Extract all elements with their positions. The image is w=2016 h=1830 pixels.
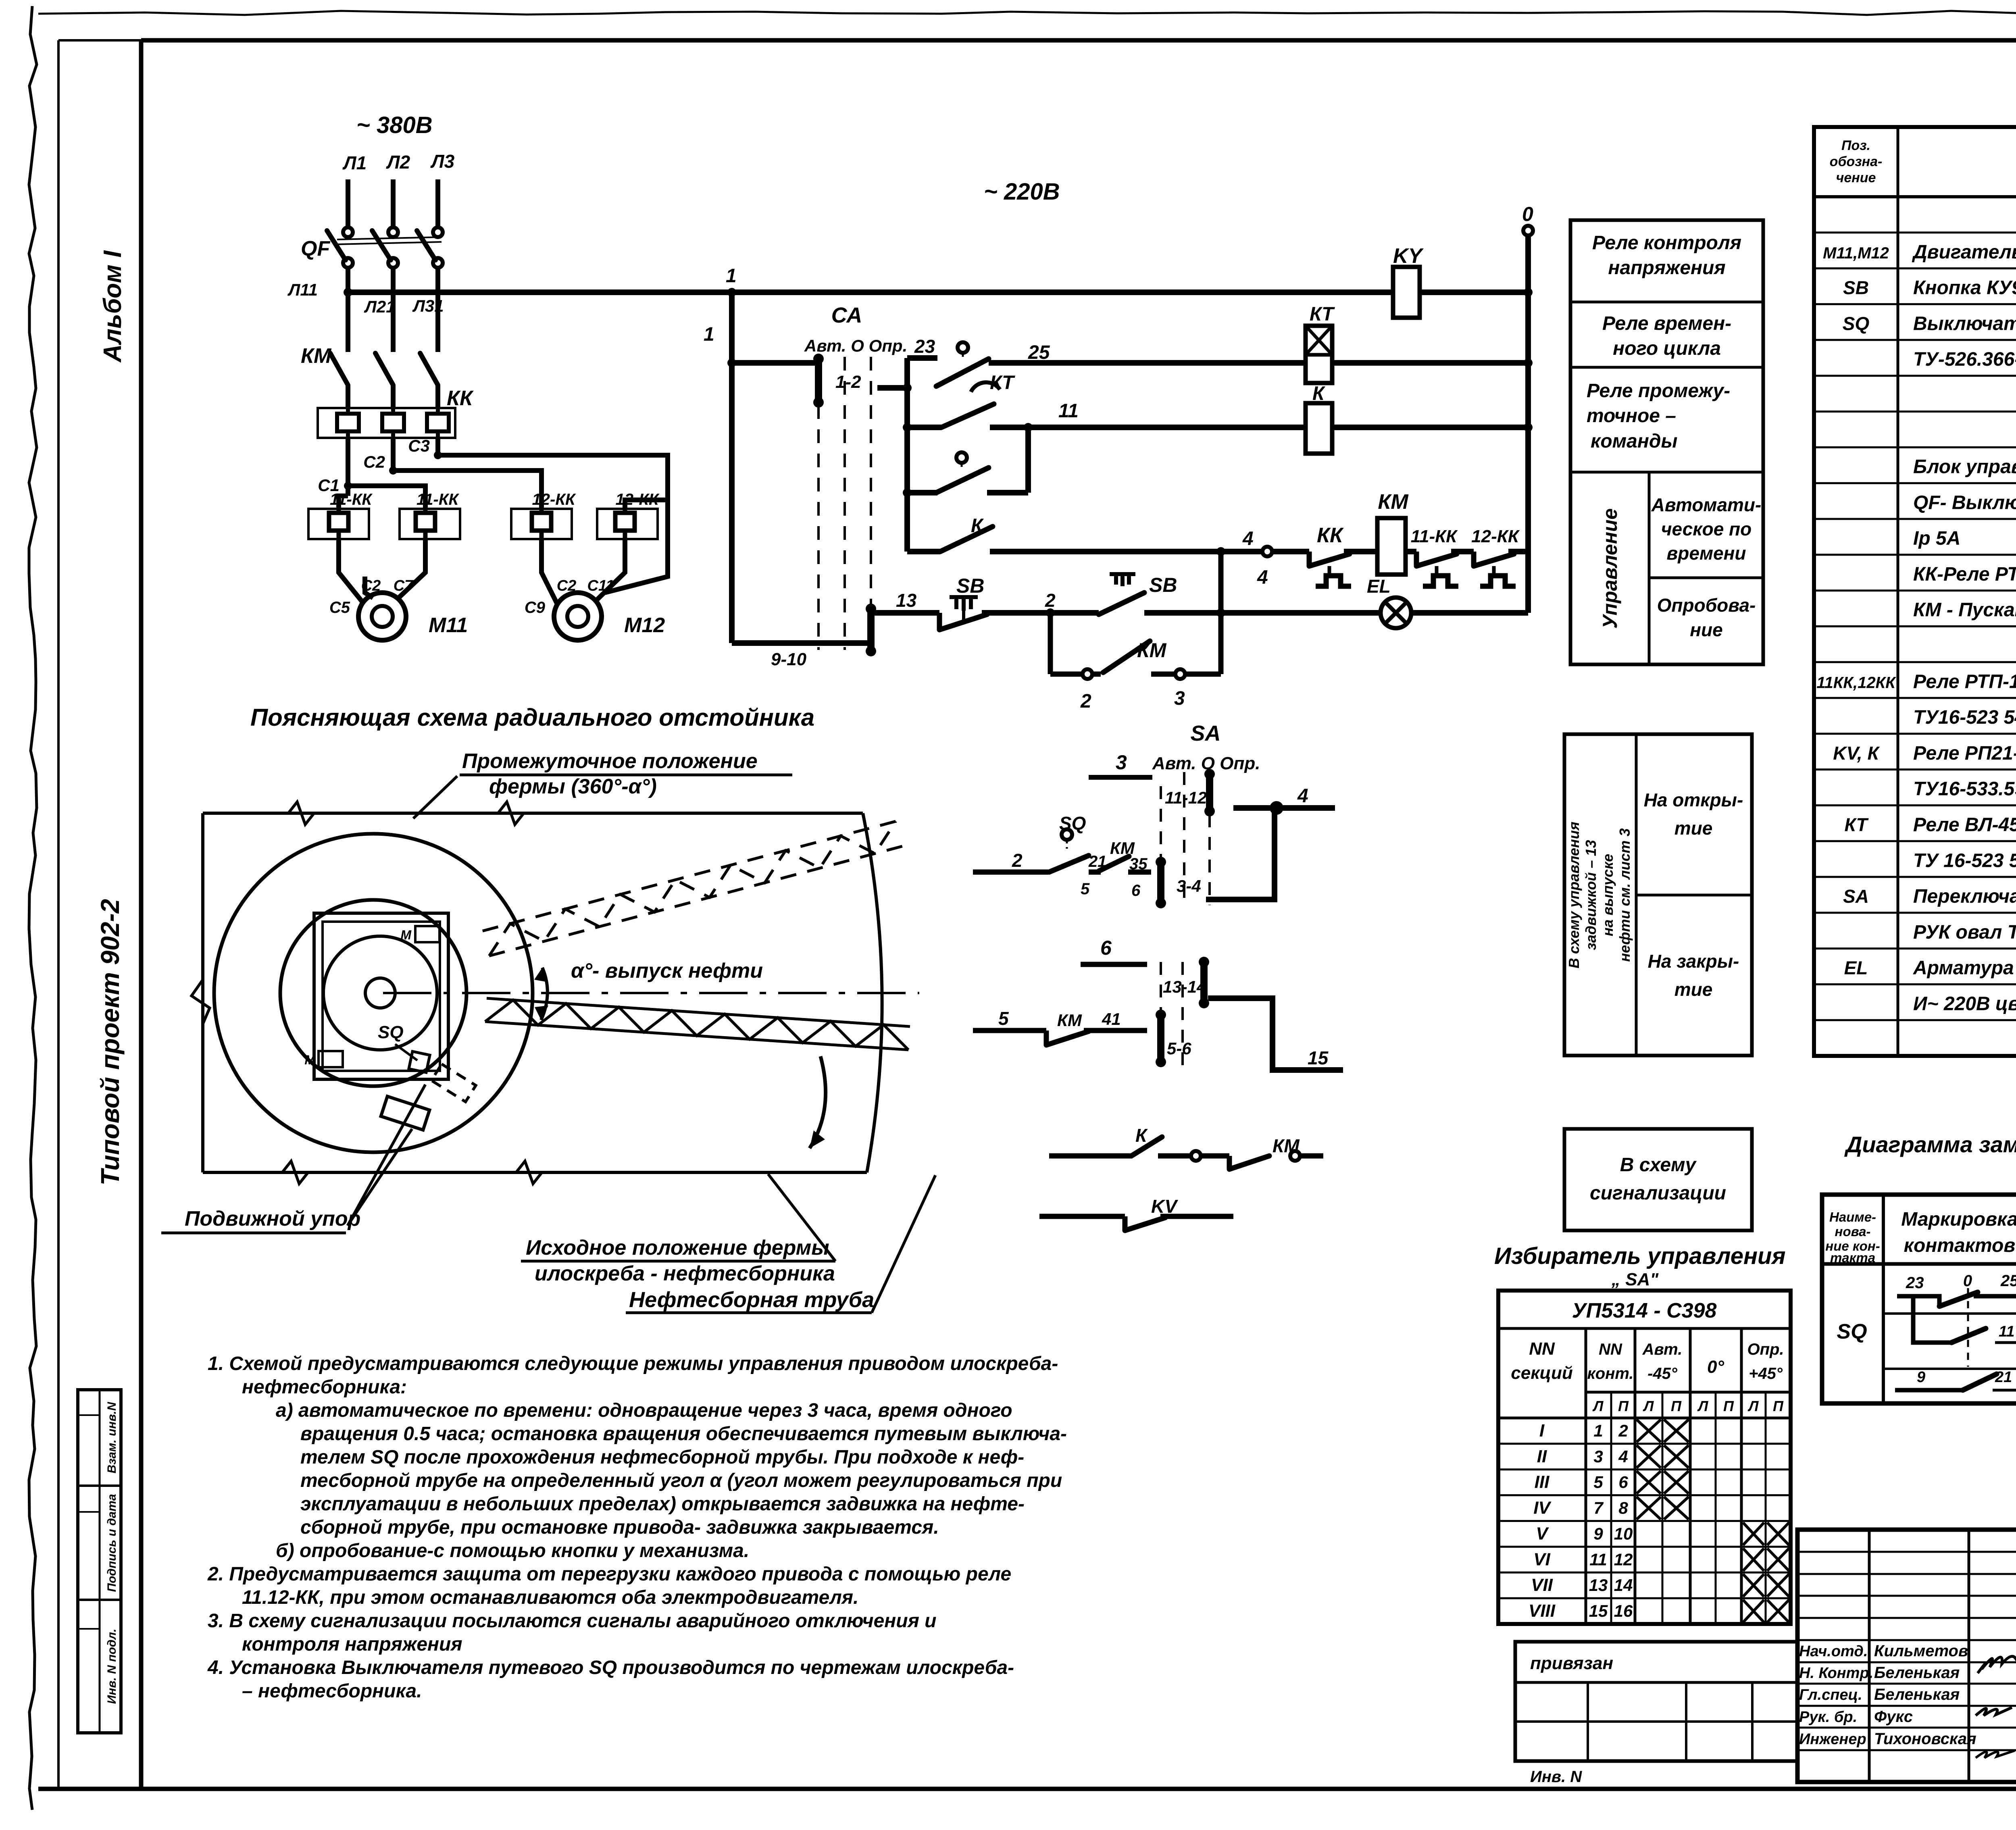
- svg-text:VI: VI: [1533, 1549, 1550, 1569]
- svg-text:23: 23: [914, 336, 935, 357]
- svg-text:б) опробование-с помощью: б) опробование-с помощью кнопки у механи…: [276, 1540, 749, 1561]
- svg-text:обозна-: обозна-: [1830, 154, 1883, 169]
- svg-text:М: М: [400, 928, 412, 942]
- svg-text:Авт. О Опр.: Авт. О Опр.: [804, 336, 907, 355]
- svg-text:Блок управления Б 5130-26: Блок управления Б 5130-26746: [1913, 456, 2016, 478]
- svg-text:вращения 0.5 часа; останов: вращения 0.5 часа; остановка вращения об…: [300, 1423, 1067, 1445]
- svg-text:6: 6: [1618, 1473, 1628, 1492]
- svg-text:К: К: [971, 515, 984, 537]
- svg-text:Беленькая: Беленькая: [1874, 1664, 1960, 1682]
- svg-text:М: М: [304, 1053, 316, 1067]
- svg-text:Наиме-: Наиме-: [1829, 1210, 1876, 1224]
- svg-text:К: К: [1312, 383, 1326, 404]
- svg-text:10: 10: [1614, 1524, 1633, 1543]
- svg-text:SQ: SQ: [1837, 1320, 1867, 1343]
- svg-text:Л: Л: [1643, 1398, 1654, 1414]
- svg-text:телем SQ после прохожде: телем SQ после прохождения нефтесборной …: [300, 1447, 1024, 1468]
- svg-text:11: 11: [1058, 400, 1079, 422]
- svg-text:2: 2: [1080, 691, 1091, 712]
- svg-text:0°: 0°: [1707, 1357, 1724, 1377]
- svg-text:12-КК: 12-КК: [532, 491, 576, 508]
- svg-text:Реле РТП-100504 Iнэ 1А: Реле РТП-100504 Iнэ 1А: [1913, 671, 2016, 692]
- svg-text:„ SА": „ SА": [1611, 1270, 1659, 1289]
- svg-text:NN: NN: [1529, 1339, 1555, 1359]
- svg-text:21: 21: [1995, 1369, 2012, 1386]
- svg-text:13-14: 13-14: [1163, 977, 1206, 996]
- svg-text:Гл.спец.: Гл.спец.: [1799, 1686, 1862, 1703]
- svg-text:Кильметов: Кильметов: [1874, 1642, 1968, 1660]
- svg-text:Типовой проект 902-2: Типовой проект 902-2: [96, 899, 125, 1186]
- svg-text:VIII: VIII: [1529, 1601, 1556, 1621]
- svg-text:Тихоновская: Тихоновская: [1874, 1730, 1976, 1748]
- svg-text:КК-Реле РТЛ 100804 Iнэ: КК-Реле РТЛ 100804 Iнэ 4А: [1913, 564, 2016, 585]
- svg-text:Л: Л: [1697, 1398, 1709, 1414]
- svg-text:SQ: SQ: [378, 1022, 404, 1042]
- svg-text:С9: С9: [525, 599, 546, 616]
- svg-text:Iр 5А: Iр 5А: [1913, 528, 1960, 549]
- svg-text:SА: SА: [1843, 886, 1869, 907]
- svg-text:Двигатель ВАО-22-6 Р 1.1 кВ: Двигатель ВАО-22-6 Р 1.1 кВт. I з.2А: [1912, 242, 2016, 263]
- svg-text:Реле РП21-002 И~220В: Реле РП21-002 И~220В: [1913, 743, 2016, 764]
- svg-text:9-10: 9-10: [771, 650, 807, 669]
- svg-text:Альбом I: Альбом I: [99, 250, 127, 363]
- svg-text:Л2: Л2: [386, 152, 410, 173]
- svg-text:1-2: 1-2: [835, 372, 861, 392]
- svg-text:II: II: [1537, 1447, 1547, 1466]
- svg-text:КК: КК: [447, 387, 474, 410]
- svg-text:Поясняющая схема радиальн: Поясняющая схема радиального отстойника: [250, 704, 814, 731]
- svg-text:2. Предусматривается защита: 2. Предусматривается защита от перегрузк…: [207, 1564, 1011, 1585]
- svg-text:5-6: 5-6: [1167, 1039, 1191, 1058]
- svg-text:сборной трубе, при остановке: сборной трубе, при остановке привода- за…: [300, 1517, 939, 1538]
- svg-text:Л: Л: [1592, 1398, 1604, 1414]
- svg-text:3: 3: [1174, 688, 1185, 709]
- svg-text:15: 15: [1308, 1047, 1329, 1068]
- svg-text:времени: времени: [1667, 543, 1746, 564]
- svg-text:К: К: [1135, 1125, 1148, 1146]
- svg-text:С2: С2: [363, 452, 385, 471]
- svg-text:конт.: конт.: [1587, 1365, 1633, 1382]
- svg-text:С7: С7: [394, 577, 414, 594]
- svg-text:2: 2: [1045, 590, 1056, 611]
- svg-text:П: П: [1671, 1398, 1682, 1414]
- svg-text:11: 11: [1589, 1550, 1607, 1569]
- svg-text:Автомати-: Автомати-: [1651, 494, 1762, 515]
- svg-text:эксплуатации в небольших: эксплуатации в небольших пределах) откры…: [300, 1493, 1025, 1515]
- svg-text:SB: SB: [1149, 574, 1177, 596]
- svg-text:4: 4: [1297, 785, 1308, 807]
- svg-text:5: 5: [998, 1008, 1009, 1029]
- svg-text:нефтесборника:: нефтесборника:: [242, 1376, 407, 1398]
- svg-text:ТУ 16-523 585-80: ТУ 16-523 585-80: [1913, 850, 2016, 871]
- svg-text:На закры-: На закры-: [1648, 951, 1739, 972]
- svg-text:SА: SА: [1190, 721, 1220, 745]
- svg-text:7: 7: [1593, 1499, 1604, 1518]
- svg-text:III: III: [1535, 1472, 1549, 1492]
- svg-text:2: 2: [1618, 1421, 1628, 1440]
- svg-text:задвижкой – 13: задвижкой – 13: [1583, 840, 1599, 950]
- svg-text:-45°: -45°: [1647, 1365, 1678, 1382]
- svg-text:С2: С2: [361, 577, 381, 594]
- svg-text:тие: тие: [1674, 818, 1713, 839]
- svg-text:Реле промежу-: Реле промежу-: [1587, 380, 1730, 402]
- svg-text:2: 2: [1012, 850, 1023, 871]
- svg-text:Реле контроля: Реле контроля: [1592, 232, 1741, 254]
- svg-text:Переключатель УП5314-С398: Переключатель УП5314-С398: [1913, 886, 2016, 907]
- svg-text:КМ: КМ: [301, 344, 332, 368]
- svg-text:чение: чение: [1836, 170, 1876, 185]
- svg-text:М11: М11: [429, 614, 468, 637]
- svg-text:ТУ-526.366-74: ТУ-526.366-74: [1913, 349, 2016, 370]
- svg-text:1: 1: [704, 324, 714, 345]
- svg-text:6: 6: [1131, 882, 1141, 899]
- svg-text:КМ: КМ: [1378, 490, 1409, 514]
- svg-text:Н. Контр.: Н. Контр.: [1799, 1665, 1873, 1682]
- svg-text:KY: KY: [1393, 244, 1424, 268]
- svg-text:Взам. инв.N: Взам. инв.N: [105, 1401, 119, 1473]
- svg-text:11КК,12КК: 11КК,12КК: [1816, 674, 1896, 691]
- svg-text:контактов: контактов: [1904, 1235, 2016, 1256]
- svg-text:ческое по: ческое по: [1661, 518, 1752, 539]
- svg-text:QF- Выключатель АЕ-2026-1: QF- Выключатель АЕ-2026-10НУ3: [1913, 492, 2016, 513]
- svg-text:1. Схемой предусматриваются: 1. Схемой предусматриваются следующие ре…: [208, 1353, 1058, 1374]
- svg-text:SВ: SВ: [1843, 277, 1869, 298]
- svg-text:15: 15: [1589, 1601, 1608, 1620]
- svg-text:9: 9: [1917, 1369, 1925, 1386]
- svg-text:11-12: 11-12: [1165, 788, 1207, 807]
- svg-text:KV: KV: [1151, 1196, 1178, 1217]
- svg-text:КТ: КТ: [1310, 304, 1335, 325]
- svg-text:8: 8: [1618, 1499, 1628, 1518]
- svg-text:11-КК: 11-КК: [330, 491, 373, 508]
- svg-text:Выключатель путевой ВПВ-41: Выключатель путевой ВПВ-4124241: [1913, 313, 2016, 334]
- svg-text:нова-: нова-: [1835, 1224, 1871, 1239]
- svg-text:такта: такта: [1830, 1250, 1875, 1265]
- svg-text:11.12-КК, при этом оста: 11.12-КК, при этом останавливаются оба э…: [242, 1587, 858, 1608]
- svg-text:секций: секций: [1511, 1363, 1573, 1383]
- svg-text:SB: SB: [956, 575, 984, 597]
- svg-text:Подвижной упор: Подвижной упор: [185, 1207, 360, 1230]
- svg-text:Л1: Л1: [342, 152, 367, 173]
- svg-text:Беленькая: Беленькая: [1874, 1686, 1960, 1703]
- svg-text:~ 220В: ~ 220В: [984, 179, 1060, 205]
- svg-text:Л3: Л3: [430, 151, 455, 172]
- svg-text:Л: Л: [1747, 1398, 1759, 1414]
- svg-text:5: 5: [1593, 1473, 1603, 1492]
- svg-text:0: 0: [1522, 203, 1533, 225]
- svg-text:1: 1: [726, 265, 737, 287]
- svg-text:23: 23: [1906, 1274, 1924, 1292]
- svg-text:И~ 220В цвет красн. ТУ16-535: И~ 220В цвет красн. ТУ16-535 930-76: [1913, 993, 2016, 1014]
- svg-text:Реле ВЛ-45 И~220В: Реле ВЛ-45 И~220В: [1913, 814, 2016, 835]
- svg-text:Маркировка: Маркировка: [1901, 1209, 2016, 1230]
- svg-text:Нач.отд.: Нач.отд.: [1799, 1643, 1868, 1660]
- svg-text:Фукс: Фукс: [1874, 1708, 1913, 1726]
- svg-text:Авт.: Авт.: [1642, 1341, 1683, 1358]
- svg-text:КМ: КМ: [1137, 639, 1167, 662]
- svg-text:QF: QF: [301, 237, 330, 260]
- svg-text:SQ: SQ: [1843, 313, 1870, 334]
- svg-text:Опр.: Опр.: [1747, 1341, 1784, 1358]
- svg-text:ЕL: ЕL: [1844, 958, 1868, 978]
- svg-text:12: 12: [1614, 1550, 1633, 1569]
- svg-text:25: 25: [2000, 1272, 2016, 1290]
- svg-text:11-КК: 11-КК: [417, 491, 459, 508]
- svg-text:V: V: [1536, 1524, 1549, 1543]
- svg-text:Инженер: Инженер: [1799, 1731, 1866, 1748]
- svg-text:– нефтесборника.: – нефтесборника.: [242, 1680, 422, 1702]
- svg-text:11-КК: 11-КК: [1411, 527, 1458, 546]
- svg-text:В схему: В схему: [1620, 1154, 1697, 1176]
- svg-text:УП5314 - С398: УП5314 - С398: [1572, 1299, 1717, 1322]
- svg-text:С11: С11: [587, 577, 614, 594]
- svg-text:SQ: SQ: [1059, 813, 1086, 834]
- svg-text:команды: команды: [1591, 431, 1678, 452]
- svg-text:ТУ16-523 549-78: ТУ16-523 549-78: [1913, 707, 2016, 728]
- svg-text:РУК овал ТУ 16-524 074-7: РУК овал ТУ 16-524 074-75: [1913, 922, 2016, 943]
- svg-text:Рук. бр.: Рук. бр.: [1799, 1709, 1857, 1726]
- svg-text:9: 9: [1593, 1524, 1603, 1543]
- svg-text:3: 3: [1116, 751, 1127, 774]
- svg-text:С2: С2: [557, 577, 577, 594]
- svg-text:4: 4: [1257, 567, 1268, 588]
- svg-text:КК: КК: [1317, 524, 1344, 547]
- svg-text:0: 0: [1963, 1272, 1972, 1290]
- svg-text:П: П: [1773, 1398, 1784, 1414]
- svg-text:1: 1: [1593, 1421, 1603, 1440]
- svg-text:6: 6: [1100, 937, 1112, 959]
- svg-text:Реле времен-: Реле времен-: [1602, 313, 1731, 334]
- svg-text:тесборной трубе на опреде: тесборной трубе на определенный угол α (…: [300, 1470, 1062, 1491]
- svg-text:На откры-: На откры-: [1644, 789, 1743, 810]
- svg-text:КМ: КМ: [1057, 1011, 1082, 1030]
- svg-text:NN: NN: [1599, 1341, 1622, 1358]
- svg-text:VII: VII: [1531, 1575, 1553, 1595]
- svg-text:14: 14: [1614, 1576, 1633, 1595]
- svg-text:Опробова-: Опробова-: [1657, 595, 1756, 616]
- svg-text:КТ: КТ: [990, 372, 1015, 393]
- svg-text:СА: СА: [831, 303, 862, 327]
- svg-text:Л21: Л21: [364, 297, 396, 316]
- svg-text:привязан: привязан: [1530, 1653, 1613, 1673]
- svg-text:KV, К: KV, К: [1833, 743, 1880, 764]
- svg-text:I: I: [1539, 1421, 1545, 1441]
- svg-text:Исходное положение фермы: Исходное положение фермы: [526, 1236, 829, 1260]
- svg-text:ного цикла: ного цикла: [1613, 338, 1721, 359]
- svg-text:илоскреба - нефтесборника: илоскреба - нефтесборника: [535, 1262, 835, 1285]
- svg-text:11: 11: [1999, 1323, 2014, 1340]
- svg-text:α°- выпуск нефти: α°- выпуск нефти: [571, 959, 763, 983]
- svg-text:Промежуточное положение: Промежуточное положение: [462, 749, 758, 773]
- svg-text:КТ: КТ: [1845, 814, 1869, 835]
- svg-text:С5: С5: [329, 599, 350, 616]
- svg-text:П: П: [1618, 1398, 1629, 1414]
- svg-text:ние: ние: [1690, 619, 1722, 640]
- svg-text:В схему управления: В схему управления: [1566, 822, 1582, 968]
- svg-text:КМ: КМ: [1110, 839, 1135, 858]
- svg-text:ЕL: ЕL: [1367, 576, 1391, 597]
- svg-text:5: 5: [1081, 880, 1090, 898]
- svg-text:IV: IV: [1533, 1498, 1552, 1518]
- svg-text:16: 16: [1614, 1601, 1633, 1620]
- svg-text:М12: М12: [624, 614, 665, 637]
- svg-text:4. Установка Выключателя: 4. Установка Выключателя путевого SQ про…: [207, 1657, 1014, 1678]
- svg-text:Инв. N подл.: Инв. N подл.: [105, 1629, 119, 1704]
- svg-text:12-КК: 12-КК: [1471, 527, 1520, 546]
- svg-text:Нефтесборная труба: Нефтесборная труба: [629, 1288, 874, 1312]
- svg-text:ТУ16-533.593-80: ТУ16-533.593-80: [1913, 779, 2016, 800]
- svg-text:сигнализации: сигнализации: [1590, 1183, 1726, 1204]
- svg-text:тие: тие: [1674, 979, 1713, 1000]
- svg-text:фермы (360°-α°): фермы (360°-α°): [489, 775, 657, 798]
- svg-text:13: 13: [1589, 1576, 1608, 1595]
- svg-text:Управление: Управление: [1599, 508, 1621, 629]
- svg-text:С3: С3: [408, 436, 430, 455]
- svg-text:12-КК: 12-КК: [616, 491, 660, 508]
- svg-text:3: 3: [1593, 1447, 1603, 1466]
- svg-text:М11,М12: М11,М12: [1823, 244, 1889, 262]
- svg-text:Инв. N: Инв. N: [1530, 1768, 1582, 1786]
- svg-text:3-4: 3-4: [1177, 876, 1201, 895]
- svg-text:контроля напряжения: контроля напряжения: [242, 1634, 462, 1655]
- svg-text:~ 380В: ~ 380В: [356, 112, 433, 138]
- svg-text:КМ - Пускатель ПМП 110004А: КМ - Пускатель ПМП 110004А ПКЛ 2204: [1913, 600, 2016, 621]
- svg-text:нефти см. лист 3: нефти см. лист 3: [1616, 828, 1633, 962]
- svg-text:напряжения: напряжения: [1608, 257, 1725, 279]
- svg-text:Диаграмма замыканий контакт: Диаграмма замыканий контактов нулевого в…: [1844, 1132, 2016, 1157]
- svg-text:3. В схему сигнализации: 3. В схему сигнализации посылаются сигна…: [208, 1610, 937, 1632]
- svg-text:Кнопка КУ92-В3Г-У2. ТУ16-526: Кнопка КУ92-В3Г-У2. ТУ16-526.201-75: [1913, 277, 2016, 299]
- svg-text:4: 4: [1618, 1447, 1628, 1466]
- svg-text:Л11: Л11: [287, 280, 318, 299]
- svg-text:на выпуске: на выпуске: [1599, 854, 1616, 937]
- svg-text:25: 25: [1028, 342, 1050, 363]
- svg-text:41: 41: [1102, 1010, 1121, 1028]
- svg-text:+45°: +45°: [1749, 1365, 1783, 1382]
- svg-text:Избиратель управления: Избиратель управления: [1494, 1243, 1786, 1269]
- svg-text:П: П: [1723, 1398, 1734, 1414]
- svg-text:Подпись и дата: Подпись и дата: [105, 1494, 119, 1592]
- svg-text:точное –: точное –: [1587, 405, 1676, 427]
- svg-text:Поз.: Поз.: [1841, 138, 1870, 153]
- svg-text:4: 4: [1242, 528, 1254, 550]
- svg-text:а) автоматическое по време: а) автоматическое по времени: одновращен…: [276, 1400, 1012, 1421]
- svg-text:13: 13: [896, 590, 917, 611]
- svg-text:Арматура АС 12011: Арматура АС 12011: [1913, 958, 2016, 979]
